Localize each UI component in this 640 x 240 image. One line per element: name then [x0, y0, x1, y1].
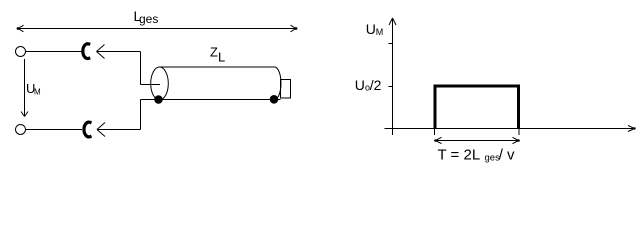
svg-text:/ v: / v [499, 146, 515, 163]
svg-text:Z: Z [210, 44, 218, 59]
svg-text:ges: ges [139, 12, 158, 26]
svg-text:M: M [34, 88, 41, 97]
svg-text:/2: /2 [370, 77, 382, 93]
svg-text:U: U [355, 77, 365, 93]
svg-text:M: M [376, 27, 384, 37]
svg-text:T = 2L: T = 2L [438, 146, 481, 163]
svg-text:U: U [366, 21, 376, 37]
svg-text:L: L [218, 49, 225, 64]
